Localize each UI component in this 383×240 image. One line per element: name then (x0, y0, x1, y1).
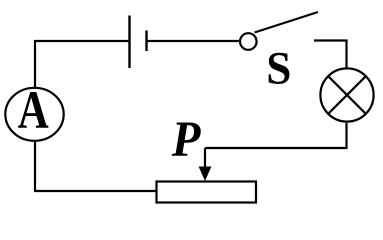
wire top-right horizontal (314, 39, 348, 41)
wire battery to switch (147, 40, 240, 42)
wire left vertical (battery to ammeter) (34, 40, 36, 88)
rheostat wiper arrow (199, 148, 212, 181)
wire mid horizontal (wiper to lamp) (205, 147, 348, 149)
wire top-left horizontal (34, 40, 129, 42)
battery long plate (128, 16, 130, 69)
wire bottom horizontal (34, 190, 157, 192)
ammeter A (5, 79, 63, 141)
rheostat body (157, 182, 257, 203)
switch S pivot circle (240, 33, 257, 50)
svg-text:S: S (266, 42, 291, 94)
lamp L (320, 68, 373, 121)
svg-text:P: P (171, 111, 202, 167)
wire lamp top vertical (345, 40, 347, 70)
wire lamp bottom vertical (345, 123, 347, 149)
battery short plate (145, 31, 147, 52)
svg-text:A: A (18, 79, 49, 140)
switch blade (255, 12, 319, 33)
wire ammeter to bottom (34, 141, 36, 191)
